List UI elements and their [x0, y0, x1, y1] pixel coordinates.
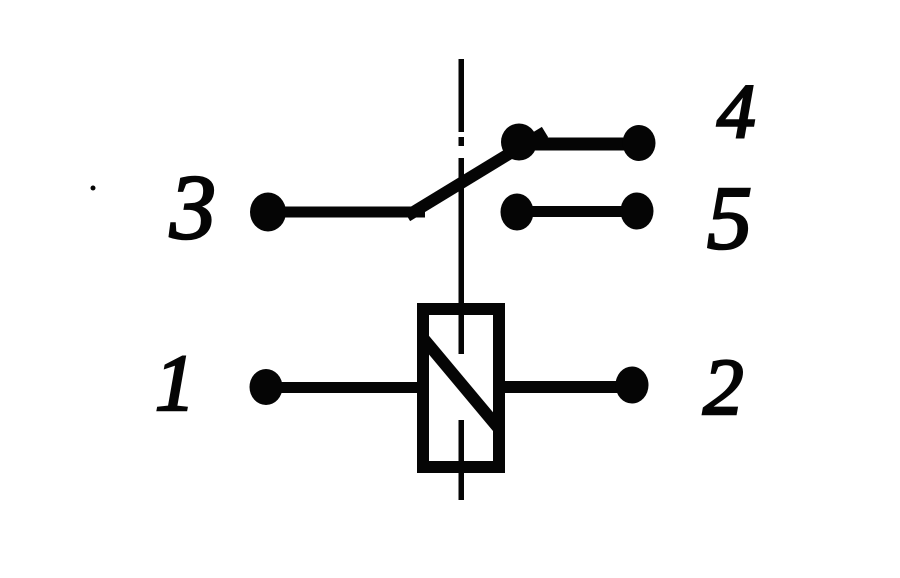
node pin 1 terminal dot	[250, 369, 283, 405]
wire: mechanical link dashed line, small dash	[459, 137, 465, 146]
wire: mechanical link dashed line, lower dash	[459, 420, 465, 500]
svg-text:1: 1	[155, 340, 195, 428]
svg-text:4: 4	[717, 68, 756, 154]
wire: pin 3 to switch pivot	[280, 207, 425, 218]
node pin 5 terminal dot	[621, 193, 654, 230]
switch arm (common contact 3 to contact 4)	[407, 132, 545, 216]
relay coil K1 rectangle	[423, 309, 499, 467]
node contact 4 dot	[501, 124, 537, 161]
wire: mechanical link dashed line, upper dash	[459, 59, 465, 132]
wire: contact 5 to pin 5	[526, 206, 626, 217]
svg-text:5: 5	[707, 169, 752, 268]
wire: pin 1 to coil	[278, 382, 418, 393]
svg-text:3: 3	[169, 156, 216, 258]
node pin 2 terminal dot	[616, 367, 649, 404]
node pin 3 terminal dot	[250, 193, 286, 232]
node pin 4 terminal dot	[623, 125, 656, 161]
node contact 5 dot	[501, 194, 534, 231]
wire: mechanical link dashed line, middle dash	[459, 158, 465, 354]
wire: contact 4 to pin 4	[530, 138, 630, 151]
svg-text:2: 2	[703, 342, 744, 432]
relay coil diagonal stroke	[423, 338, 500, 430]
speck artifact	[91, 186, 96, 191]
wire: coil to pin 2	[504, 381, 621, 393]
